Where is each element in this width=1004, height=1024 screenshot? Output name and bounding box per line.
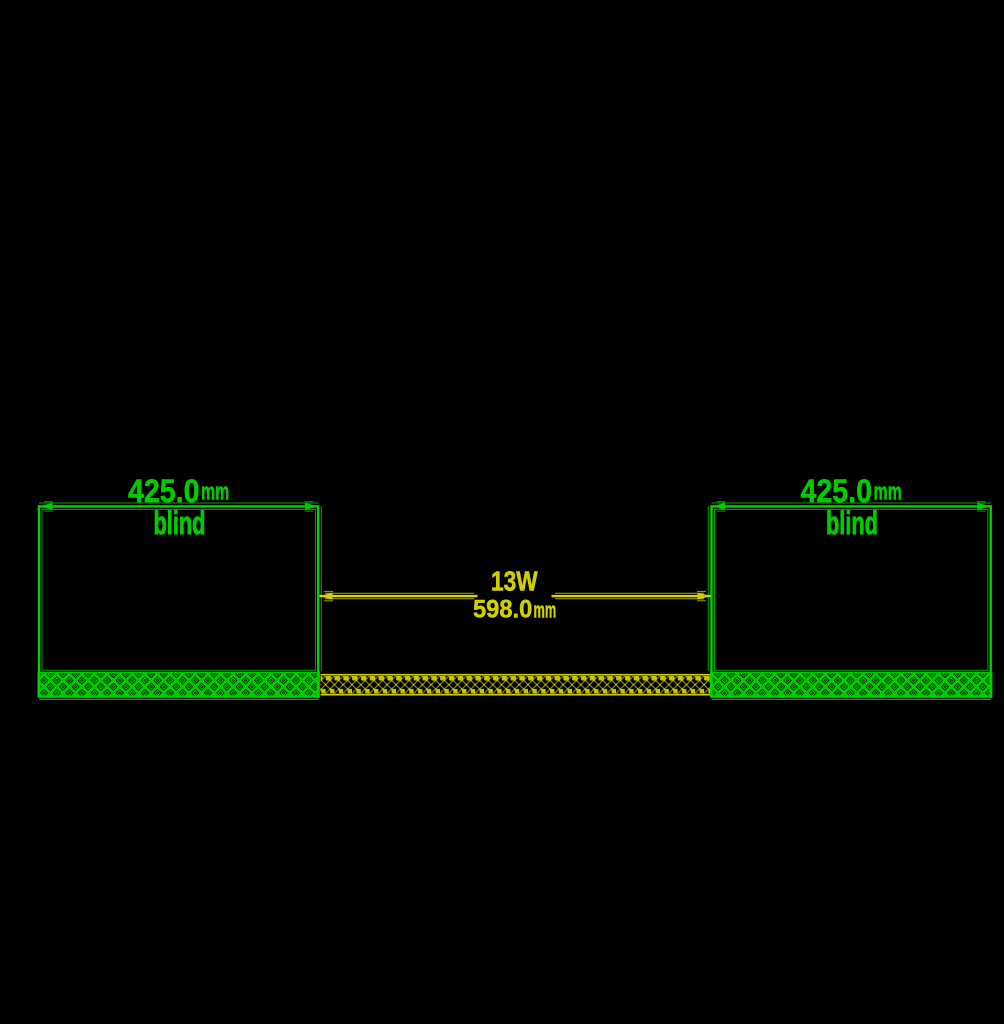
left blind bottom underline bbox=[39, 698, 319, 700]
svg-text:mm: mm bbox=[874, 479, 902, 505]
dimension text 598.0 bbox=[473, 596, 532, 624]
dimension text 425.0 (right) bbox=[801, 475, 873, 510]
yellow dimension line left segment bbox=[320, 595, 478, 597]
right blind left outer echo line bbox=[707, 506, 709, 671]
label text blind (left) bbox=[154, 505, 206, 541]
left blind inner box right edge bbox=[314, 509, 316, 671]
left blind inner box top edge bbox=[42, 508, 315, 510]
svg-text:blind: blind bbox=[826, 505, 878, 541]
yellow dimension upper echo left bbox=[325, 592, 474, 594]
svg-text:598.0: 598.0 bbox=[473, 596, 532, 624]
right blind bottom underline bbox=[712, 698, 992, 700]
red artifact dot at left sill end bbox=[320, 684, 322, 686]
yellow dimension upper echo right bbox=[555, 592, 704, 594]
green dimension arrow left (right blind) bbox=[712, 503, 726, 510]
green dimension line upper echo (right) bbox=[712, 502, 992, 504]
yellow dimension lower echo right bbox=[555, 598, 704, 600]
yellow dimension line right segment bbox=[552, 595, 711, 597]
left blind hatched bottom bar bbox=[38, 673, 319, 697]
dimension text mm (yellow) bbox=[534, 598, 557, 622]
right blind inner box bottom edge bbox=[715, 669, 988, 671]
yellow dimension lower echo left bbox=[325, 598, 474, 600]
left blind right outer echo line bbox=[320, 506, 322, 671]
green dimension arrow right (right blind) bbox=[977, 503, 991, 510]
right blind inner box left edge bbox=[714, 509, 716, 671]
right blind inner box right edge bbox=[987, 509, 989, 671]
svg-text:13W: 13W bbox=[491, 566, 538, 597]
green dimension arrow right (left blind) bbox=[305, 503, 319, 510]
dimension text mm (right) bbox=[874, 479, 902, 505]
green dimension line upper echo (left) bbox=[39, 502, 319, 504]
yellow hatched sill bar fill bbox=[321, 676, 711, 694]
left blind inner box left edge bbox=[41, 509, 43, 671]
left blind inner box bottom edge bbox=[42, 669, 315, 671]
green dimension arrow left (left blind) bbox=[39, 503, 53, 510]
svg-text:mm: mm bbox=[201, 479, 229, 505]
svg-text:mm: mm bbox=[534, 598, 557, 622]
right blind inner box top edge bbox=[715, 508, 988, 510]
yellow sill bar top border bbox=[321, 674, 711, 676]
right blind outer box bbox=[712, 506, 991, 696]
left blind outer box bbox=[39, 506, 318, 696]
svg-text:blind: blind bbox=[154, 505, 206, 541]
yellow dimension arrow left bbox=[319, 593, 333, 600]
dimension text 13W bbox=[491, 566, 538, 597]
dimension text 425.0 (left) bbox=[128, 475, 200, 510]
yellow dimension arrow right bbox=[698, 593, 712, 600]
label text blind (right) bbox=[826, 505, 878, 541]
right blind hatched bottom bar bbox=[711, 673, 992, 697]
dimension text mm (left) bbox=[201, 479, 229, 505]
yellow sill bar bottom border bbox=[321, 694, 711, 696]
orange artifact dot at left sill end bbox=[320, 689, 322, 691]
